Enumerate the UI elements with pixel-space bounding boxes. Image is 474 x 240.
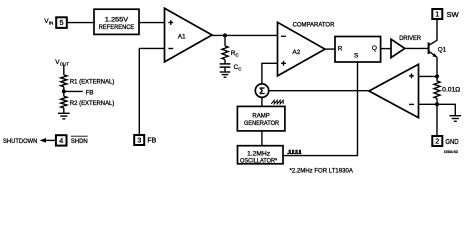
node emitter sense junction <box>435 74 439 78</box>
svg-text:5: 5 <box>60 18 64 27</box>
node sense bottom junction <box>435 102 439 106</box>
wire oscillator to latch S input <box>283 62 358 156</box>
wire summer to A2 noninverting input <box>262 63 278 84</box>
svg-text:RAMP: RAMP <box>252 112 269 119</box>
svg-text:OUT: OUT <box>60 62 69 67</box>
svg-text:1.2MHz: 1.2MHz <box>247 151 270 158</box>
comparator A2 <box>278 22 335 76</box>
svg-text:4: 4 <box>59 136 63 145</box>
svg-text:C: C <box>236 53 239 58</box>
wire to power ground <box>437 104 455 115</box>
label VIN <box>44 18 53 26</box>
wire A1 inverting input <box>139 47 164 49</box>
wire latch Q to driver <box>381 48 391 50</box>
RS latch <box>335 37 381 63</box>
svg-text:Q1: Q1 <box>438 46 447 53</box>
wire FB stub <box>64 89 94 96</box>
svg-text:Q: Q <box>372 45 377 52</box>
pin 4 (SHDN) <box>56 135 88 145</box>
wire A2 output to latch R input <box>325 48 335 50</box>
oscillator box <box>238 146 284 165</box>
wire summer to current sense amp output <box>269 90 369 92</box>
wire reference to A1 noninverting input <box>139 22 165 24</box>
svg-text:A2: A2 <box>292 49 300 56</box>
svg-text:R: R <box>338 46 343 53</box>
resistor R2 (external) <box>61 96 115 108</box>
square wave icon <box>287 150 302 153</box>
ramp waveform icon <box>271 100 283 104</box>
label VOUT <box>55 59 69 67</box>
svg-text:1: 1 <box>435 10 439 19</box>
resistor R1 (external) <box>61 75 115 87</box>
wire driver to Q1 base <box>405 47 428 49</box>
node FB divider junction <box>62 89 66 93</box>
summing node Σ <box>255 84 268 97</box>
capacitor CC <box>220 60 242 72</box>
svg-text:DRIVER: DRIVER <box>399 35 421 42</box>
wire ramp generator to oscillator <box>261 131 263 146</box>
op-amp A1 <box>165 8 213 62</box>
pin 5 (VIN) <box>56 17 67 28</box>
pin 3 (FB) <box>134 135 156 145</box>
current sense amplifier <box>369 64 419 117</box>
wire to pin 2 <box>436 104 438 136</box>
svg-text:A1: A1 <box>178 33 186 40</box>
transistor Q1 <box>428 40 447 57</box>
svg-text:COMPARATOR: COMPARATOR <box>293 22 335 29</box>
svg-text:FB: FB <box>86 89 94 96</box>
node A1 output junction <box>223 33 227 37</box>
wire sense amp + input <box>419 75 438 77</box>
wire Q1 emitter down <box>436 57 438 76</box>
svg-text:OSCILLATOR*: OSCILLATOR* <box>240 158 278 165</box>
wire R1 to R2 <box>63 87 65 97</box>
wire A1 output to A2 inverting input <box>212 34 278 36</box>
svg-text:R1 (EXTERNAL): R1 (EXTERNAL) <box>70 78 114 85</box>
svg-text:2: 2 <box>435 137 439 146</box>
ground (divider) <box>58 108 70 119</box>
svg-text:REFERENCE: REFERENCE <box>99 24 135 31</box>
shutdown arrow <box>40 138 56 143</box>
svg-text:GENERATOR: GENERATOR <box>244 120 279 127</box>
wire FB net riser (pin 3 to A1 inverting input) <box>138 48 140 135</box>
svg-text:SHUTDOWN: SHUTDOWN <box>3 138 38 145</box>
1.255V reference box <box>94 9 139 34</box>
svg-text:C: C <box>238 66 241 71</box>
wire pin 5 to reference <box>67 22 94 24</box>
svg-text:*2.2MHz FOR LT1930A: *2.2MHz FOR LT1930A <box>290 167 354 174</box>
svg-text:Σ: Σ <box>259 86 265 96</box>
svg-text:3: 3 <box>137 136 141 145</box>
svg-text:1.255V: 1.255V <box>105 16 129 23</box>
svg-text:R2 (EXTERNAL): R2 (EXTERNAL) <box>70 100 114 107</box>
svg-text:IN: IN <box>49 21 53 26</box>
wire summer to ramp generator <box>261 97 263 106</box>
svg-text:FB: FB <box>147 137 156 144</box>
svg-text:GND: GND <box>445 137 458 146</box>
svg-text:S: S <box>354 53 359 60</box>
ground (power) <box>450 116 462 122</box>
svg-text:SW: SW <box>447 10 459 19</box>
resistor 0.01Ω <box>434 76 461 104</box>
ramp generator box <box>237 106 285 130</box>
driver <box>391 35 421 58</box>
pin 1 (SW) <box>432 9 459 19</box>
svg-text:SHDN: SHDN <box>71 138 88 145</box>
wire VOUT to R1 <box>63 65 65 75</box>
wire Q1 collector to pin 1 <box>436 19 438 41</box>
svg-text:1930A BD: 1930A BD <box>444 149 458 154</box>
pin 2 (GND) <box>432 136 458 146</box>
svg-text:0.01Ω: 0.01Ω <box>442 87 460 94</box>
resistor RC <box>222 35 239 59</box>
ground (compensation) <box>220 67 231 77</box>
wire sense amp - input <box>419 103 438 105</box>
